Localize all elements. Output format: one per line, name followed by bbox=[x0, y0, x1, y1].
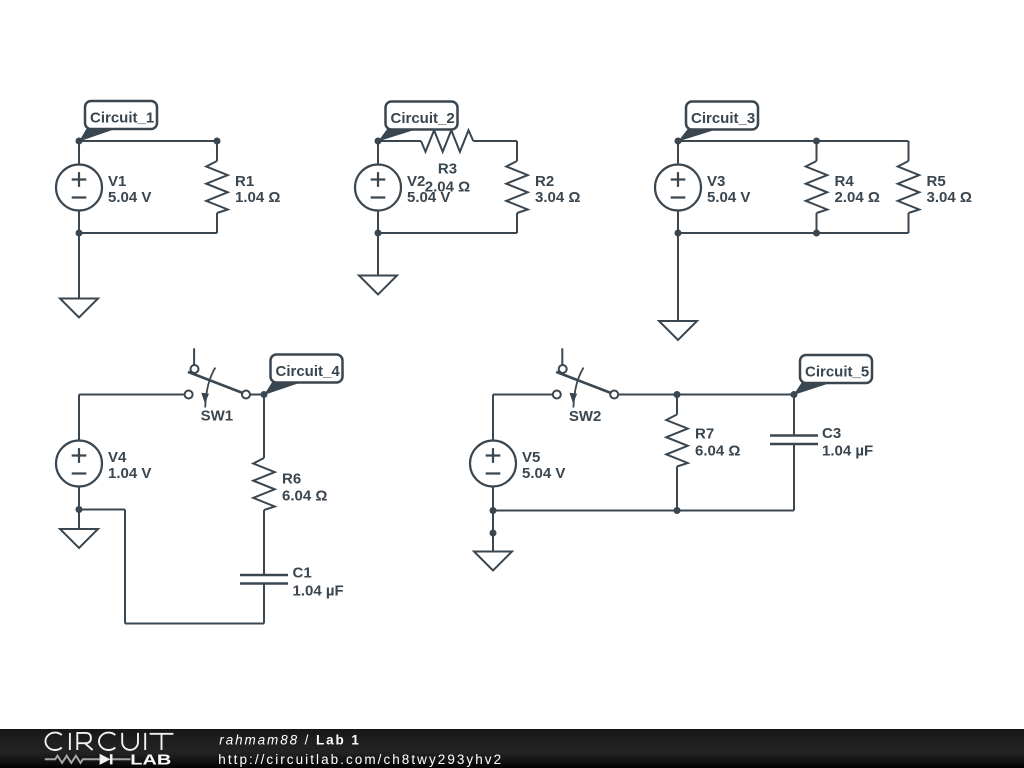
svg-text:6.04 Ω: 6.04 Ω bbox=[695, 443, 740, 460]
svg-text:R6: R6 bbox=[282, 471, 301, 488]
svg-text:R5: R5 bbox=[927, 173, 946, 190]
svg-text:Circuit_2: Circuit_2 bbox=[391, 110, 455, 127]
svg-text:2.04 Ω: 2.04 Ω bbox=[425, 179, 470, 196]
svg-text:1.04 Ω: 1.04 Ω bbox=[235, 189, 280, 206]
svg-text:1.04 µF: 1.04 µF bbox=[822, 443, 873, 460]
svg-text:R7: R7 bbox=[695, 426, 714, 443]
svg-text:R4: R4 bbox=[835, 173, 855, 190]
svg-text:Circuit_3: Circuit_3 bbox=[691, 110, 755, 127]
svg-text:2.04 Ω: 2.04 Ω bbox=[835, 189, 880, 206]
svg-text:5.04 V: 5.04 V bbox=[108, 189, 151, 206]
svg-text:http://circuitlab.com/ch8twy29: http://circuitlab.com/ch8twy293yhv2 bbox=[218, 752, 503, 767]
svg-text:V1: V1 bbox=[108, 173, 126, 190]
svg-text:C1: C1 bbox=[293, 565, 312, 582]
svg-text:5.04 V: 5.04 V bbox=[707, 189, 750, 206]
svg-text:R2: R2 bbox=[535, 173, 554, 190]
svg-text:V2: V2 bbox=[407, 173, 425, 190]
svg-text:V4: V4 bbox=[108, 449, 127, 466]
svg-text:5.04 V: 5.04 V bbox=[522, 465, 565, 482]
svg-text:V5: V5 bbox=[522, 449, 540, 466]
svg-text:V3: V3 bbox=[707, 173, 725, 190]
svg-text:R3: R3 bbox=[438, 161, 457, 178]
svg-text:Circuit_4: Circuit_4 bbox=[276, 363, 341, 380]
svg-text:1.04 µF: 1.04 µF bbox=[293, 583, 344, 600]
svg-text:SW2: SW2 bbox=[569, 408, 602, 425]
svg-text:1.04 V: 1.04 V bbox=[108, 465, 151, 482]
svg-text:3.04 Ω: 3.04 Ω bbox=[535, 189, 580, 206]
svg-text:rahmam88 / Lab 1: rahmam88 / Lab 1 bbox=[219, 732, 360, 747]
svg-text:3.04 Ω: 3.04 Ω bbox=[927, 189, 972, 206]
svg-text:C3: C3 bbox=[822, 425, 841, 442]
svg-text:SW1: SW1 bbox=[201, 408, 234, 425]
svg-text:R1: R1 bbox=[235, 173, 254, 190]
svg-text:LAB: LAB bbox=[130, 752, 171, 768]
svg-text:Circuit_1: Circuit_1 bbox=[90, 110, 154, 127]
svg-text:Circuit_5: Circuit_5 bbox=[805, 364, 869, 381]
svg-text:6.04 Ω: 6.04 Ω bbox=[282, 488, 327, 505]
